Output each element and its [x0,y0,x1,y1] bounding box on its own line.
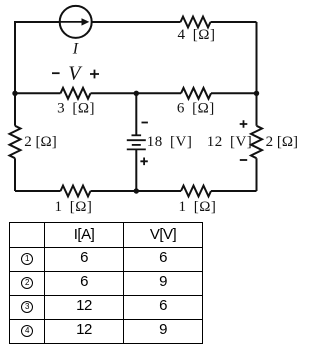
wire middle-left [15,92,136,94]
svg-text:1 [Ω]: 1 [Ω] [178,199,216,215]
node center-middle [134,91,139,96]
resistor 1ohm left [61,186,91,197]
svg-text:1 [Ω]: 1 [Ω] [54,199,92,215]
wire bottom [15,190,257,192]
sign minus battery [142,122,148,124]
svg-text:4 [Ω]: 4 [Ω] [178,27,216,43]
svg-text:12 [V]: 12 [V] [207,134,253,150]
resistor 3ohm [61,88,91,99]
resistor 1ohm right [181,186,211,197]
svg-text:18 [V]: 18 [V] [147,134,193,150]
node right-middle [254,91,259,96]
resistor 4ohm [181,17,211,28]
resistor 6ohm [181,88,211,99]
svg-text:3 [Ω]: 3 [Ω] [57,101,95,117]
svg-text:2 [Ω]: 2 [Ω] [24,134,56,150]
wire left [14,93,16,191]
svg-text:6 [Ω]: 6 [Ω] [177,101,215,117]
sign plus right [240,120,248,128]
svg-text:I: I [72,41,79,58]
data table [9,222,203,344]
sign minus V [52,72,60,74]
resistor 2ohm left [10,126,21,158]
wire middle-right [136,92,256,94]
resistor 2ohm right [251,126,262,158]
battery 18V plates [127,135,146,149]
sign plus V [90,70,99,79]
node left-middle [12,91,17,96]
node center-bottom [134,188,139,193]
sign minus right [240,159,247,161]
svg-text:2 [Ω]: 2 [Ω] [266,134,298,150]
svg-text:V: V [68,63,83,85]
current source I [60,6,92,38]
wire right [256,22,258,191]
sign plus battery [140,158,147,166]
wire battery branch [135,93,137,191]
wire top [15,22,257,93]
